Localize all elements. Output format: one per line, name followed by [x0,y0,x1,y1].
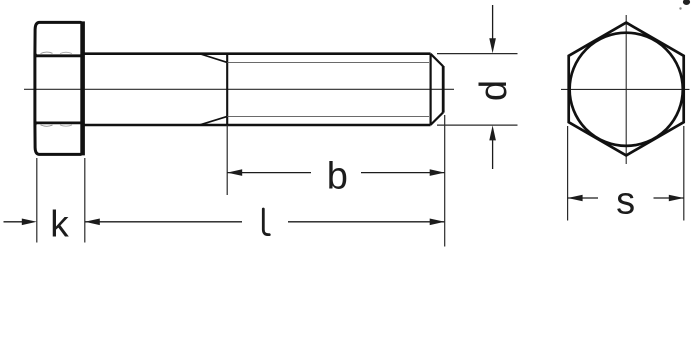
dimension s line right segment with arrow [654,197,684,199]
chamfer arc bottom face right [60,125,72,126]
hex head face line upper [35,54,84,57]
thread minor diameter line top [227,61,429,63]
chamfer arc top face right [60,52,72,53]
dimension s line left segment with arrow [568,197,598,199]
dimension k arrow left [4,221,34,223]
chamfer start line at bolt end [430,54,432,126]
dimension d arrow top [492,5,494,40]
dimension b line left segment with arrow [227,172,311,174]
thread minor diameter line bottom [227,115,429,117]
shank bottom outline [82,124,431,127]
chamfer wedge at upper left junction [34,50,37,60]
centerline of bolt axis [24,88,454,90]
scan artifact top right [683,0,690,5]
hexagon head end view centerline vertical [625,15,627,164]
extension line b left below bolt [226,125,228,195]
hexagon outline [569,23,684,156]
bolt end face [442,66,445,113]
chamfer top diagonal at bolt end [431,54,444,67]
hex head side view outline [35,22,81,154]
label l [263,209,269,235]
extension line s right [683,126,685,221]
thread run-out diagonal bottom [201,116,228,124]
shank top outline [82,52,431,55]
extension line s left [567,126,569,221]
svg-text:b: b [327,156,348,198]
svg-text:s: s [616,180,635,222]
hex head washer-face edge (right, thick) [80,21,85,155]
extension line d bottom [437,124,518,126]
extension line k right [84,158,86,243]
chamfer arc bottom face [41,125,53,126]
extension line k left [36,158,38,243]
chamfer arc top face [41,52,53,53]
hex head face line lower [35,122,84,125]
extension line d top [437,53,518,55]
dimension l line left segment with arrow [85,221,242,223]
svg-text:d: d [473,80,515,101]
chamfer bottom diagonal at bolt end [431,112,444,125]
extension line l right / bolt end [444,115,446,247]
dimension d arrow bottom [492,140,494,169]
thread run-out diagonal top [201,54,228,62]
chamfer wedge at lower left junction [34,118,37,128]
thread start line [226,54,228,126]
dimension l line right segment with arrow [288,221,445,223]
dimension b line right segment with arrow [361,172,445,174]
svg-text:k: k [50,204,69,245]
hexagon head end view centerline horizontal [561,88,690,90]
chamfer circle on hex head [570,33,683,146]
